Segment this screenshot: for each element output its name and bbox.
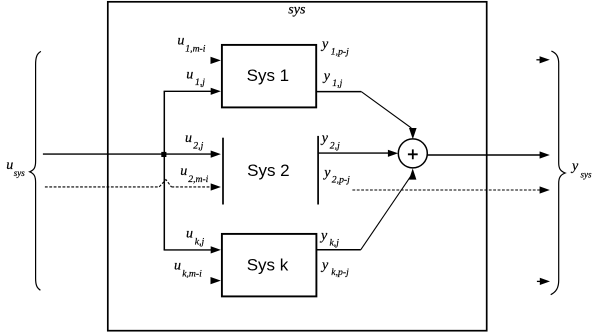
svg-text:u: u (6, 158, 13, 173)
svg-text:Sys 1: Sys 1 (247, 66, 290, 85)
svg-text:y: y (320, 258, 329, 273)
svg-text:sys: sys (14, 168, 25, 178)
svg-text:sys: sys (288, 3, 306, 18)
svg-text:k,p-j: k,p-j (331, 267, 349, 278)
svg-text:y: y (322, 166, 331, 181)
svg-text:Sys 2: Sys 2 (247, 161, 290, 180)
svg-text:Sys k: Sys k (247, 256, 289, 275)
svg-text:k,j: k,j (195, 236, 205, 247)
svg-text:u: u (177, 33, 184, 48)
svg-text:k,m-i: k,m-i (182, 268, 202, 279)
svg-text:1,j: 1,j (195, 77, 205, 88)
svg-text:k,j: k,j (330, 237, 340, 248)
svg-text:1,p-j: 1,p-j (331, 46, 349, 57)
svg-text:u: u (186, 227, 193, 242)
svg-text:u: u (180, 164, 187, 179)
svg-text:2,j: 2,j (193, 141, 203, 152)
svg-text:2,m-i: 2,m-i (188, 174, 208, 185)
svg-text:u: u (185, 131, 192, 146)
svg-text:y: y (320, 131, 329, 146)
svg-text:2,j: 2,j (330, 141, 340, 152)
svg-text:1,m-i: 1,m-i (185, 43, 205, 54)
svg-text:y: y (320, 37, 329, 52)
svg-text:sys: sys (581, 169, 592, 179)
svg-text:y: y (319, 228, 328, 243)
svg-text:2,p-j: 2,p-j (332, 175, 350, 186)
svg-text:u: u (186, 67, 193, 82)
svg-text:1,j: 1,j (332, 78, 342, 89)
svg-text:u: u (174, 259, 181, 274)
svg-text:y: y (570, 159, 579, 174)
svg-text:y: y (322, 69, 331, 84)
